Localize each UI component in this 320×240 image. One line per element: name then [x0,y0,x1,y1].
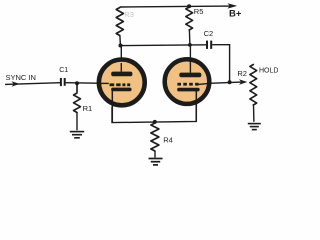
svg-text:R1: R1 [83,104,93,113]
svg-text:R3: R3 [124,10,134,19]
svg-text:SYNC IN: SYNC IN [6,73,36,82]
svg-text:R4: R4 [163,135,173,144]
svg-text:R5: R5 [194,7,204,16]
svg-text:B+: B+ [229,9,242,20]
svg-text:C2: C2 [204,29,214,38]
svg-text:R2: R2 [237,69,247,78]
svg-text:HOLD: HOLD [259,68,278,75]
svg-text:C1: C1 [59,67,68,74]
